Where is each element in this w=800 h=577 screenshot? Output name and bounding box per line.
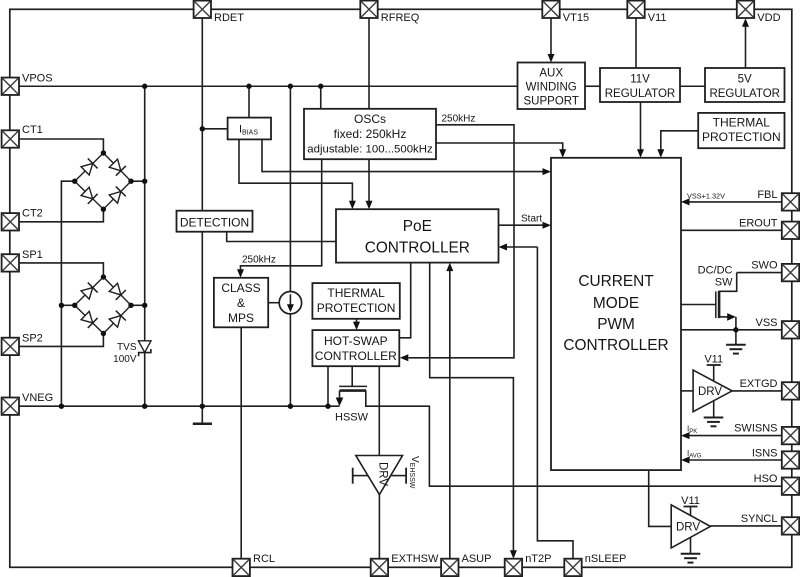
wire OSC right 250kHz to HOT-SWAP [409,125,515,358]
Q1 source arrow [339,391,341,399]
svg-text:REGULATOR: REGULATOR [709,88,780,100]
block DETECTION [177,211,253,232]
transistor Q2 DC/DC SW [681,273,737,345]
svg-text:PWM: PWM [597,316,635,333]
pin nT2P [505,559,522,576]
diode D1 [80,158,97,175]
diode D7 [80,311,97,328]
svg-text:SP1: SP1 [22,249,43,261]
svg-text:HOT-SWAP: HOT-SWAP [324,334,388,348]
pin SP1 [2,254,19,271]
pin EXTGD [782,382,799,399]
wire DRV A1 to EXTHSW pin [378,495,380,559]
wire IBIAS out1 to PWM left [262,139,543,171]
A3 V11 supply terminal [704,354,723,382]
wire RDET vertical to DETECTION [201,18,203,210]
junction IBIAS top [246,84,251,89]
svg-text:5V: 5V [738,74,752,86]
svg-text:RCL: RCL [253,553,275,565]
diode bridge B2 [75,277,131,334]
svg-text:PoE: PoE [403,218,432,235]
junction VNEG x61 [59,404,64,409]
svg-text:SWISNS: SWISNS [734,423,777,435]
transistor Q1 HSSW hot-swap switch [336,366,367,406]
svg-text:PROTECTION: PROTECTION [702,130,781,144]
svg-text:CLASS: CLASS [221,281,260,295]
Q1 gate bar [339,385,367,387]
bridge1 edge wires [75,153,131,209]
svg-text:VEHSSW: VEHSSW [408,456,420,489]
Q2 gate wire from PWM [681,304,716,306]
diode bridge B1 [75,153,131,209]
block IBIAS [228,118,271,140]
wire TVS to VNEG rail [144,353,146,407]
wire EROUT to PWM [681,229,782,231]
svg-text:DRV: DRV [698,386,722,398]
svg-text:EXTHSW: EXTHSW [391,553,439,565]
ground G4 [681,554,701,563]
wire DRV A2 to SYNCL pin [710,525,782,527]
wire V11 pin to 11V REGULATOR [635,18,637,68]
pin SWO [782,264,799,281]
svg-text:SYNCL: SYNCL [741,513,778,525]
wire OSC top stub from VPOS [320,86,322,109]
svg-text:VT15: VT15 [563,12,589,24]
pin SP2 [2,338,19,355]
pin RCL [233,559,250,576]
ground G2 [726,345,746,354]
svg-text:CURRENT: CURRENT [578,273,654,290]
Q1 channel bar [340,389,367,392]
pin CT2 [2,213,19,230]
svg-text:SUPPORT: SUPPORT [524,96,579,108]
wire IBIAS top stub from VPOS [248,86,250,117]
wire CT1 to bridge1 top [19,139,103,153]
Q2 gate bar [715,291,717,318]
svg-text:V11: V11 [681,495,700,507]
wire RFREQ vertical into OSC [368,18,370,109]
wire SWO to Q2 drain [737,272,783,274]
svg-text:CT2: CT2 [22,207,43,219]
svg-text:OSCs: OSCs [354,112,386,126]
wire SP1 to bridge2 top [19,263,103,277]
wire FBL to PWM [690,201,783,203]
wire bridge1 left node to VNEG rail [61,181,74,406]
svg-text:RDET: RDET [214,12,244,24]
block THERMAL PROTECTION mid [312,283,399,319]
current source CS1 [279,292,301,314]
wire bridge1 right node to VPOS rail [131,180,145,182]
diode D3 [80,186,97,203]
pin EXTHSW [371,559,388,576]
junction VNEG current source [288,404,293,409]
wire IBIAS out2 to PoE top [239,139,352,201]
wire PoE to HOT-SWAP [399,263,410,338]
svg-text:VSS+1.32V: VSS+1.32V [687,192,725,201]
svg-text:REGULATOR: REGULATOR [605,88,676,100]
svg-text:THERMAL: THERMAL [713,116,771,130]
wire VSS rail [681,329,782,331]
svg-text:IAVG: IAVG [687,449,702,460]
A2 ground stub [690,538,692,554]
svg-text:EXTGD: EXTGD [740,378,778,390]
wire DETECTION to VNEG rail [201,232,203,407]
A1 left terminal bar [353,468,368,484]
junction VSS Q2 source [733,327,738,332]
diode D8 [108,311,125,328]
junction VNEG x145 [142,404,147,409]
junction OSC top stub [318,84,323,89]
svg-text:DETECTION: DETECTION [180,215,249,229]
junction bridge2 left node [72,303,77,308]
wire 11V REGULATOR to PWM top [640,102,642,150]
svg-text:PROTECTION: PROTECTION [317,301,396,315]
junction bridge2 bottom node [101,331,106,336]
svg-text:IPK: IPK [687,425,697,436]
svg-text:DC/DC: DC/DC [698,265,733,277]
svg-text:nT2P: nT2P [525,553,551,565]
svg-text:VDD: VDD [757,12,780,24]
A1 right terminal bar VEHSSW [391,468,406,484]
pin ASUP [441,559,458,576]
junction bridge2 left rail [59,303,64,308]
svg-text:TVS: TVS [117,342,137,353]
Q1 gate stub from HOT-SWAP [351,366,353,386]
svg-text:V11: V11 [648,12,667,24]
pin EROUT [782,222,799,239]
diode D4 [108,187,125,204]
svg-text:FBL: FBL [757,189,777,201]
wire IBIAS left stub from RDET line [202,128,227,130]
A2 V11 supply terminal [681,495,700,516]
pin nSLEEP [564,559,581,576]
wire PoE to nT2P pin [430,263,514,551]
wire CLASS MPS to current source [268,302,279,304]
wire current source to VNEG rail [289,314,291,406]
pin RFREQ [360,1,377,18]
wire DRV A3 to EXTGD pin [732,390,782,392]
wire OSC bottom to PoE top [368,159,370,201]
Q2 channel bar [718,291,721,318]
block AUX WINDING SUPPORT [518,63,586,110]
diode D5 [80,283,97,300]
svg-text:adjustable: 100...500kHz: adjustable: 100...500kHz [307,144,433,156]
svg-text:RFREQ: RFREQ [381,12,420,24]
driver A3 DRV for EXTGD [693,370,732,412]
diode D2 [108,158,125,175]
pin RDET [194,1,211,18]
svg-text:CT1: CT1 [22,124,43,136]
wire PWM to DRV A3 input [681,390,693,392]
wire SWISNS to PWM [690,435,783,437]
TVS zener diode 100V [138,341,151,356]
svg-text:nSLEEP: nSLEEP [585,553,627,565]
node vertical from VPOS to current source [289,86,291,291]
svg-text:AUX: AUX [539,68,563,80]
block 5V REGULATOR [705,68,785,102]
junction VNEG ground [200,404,205,409]
wire 5V REGULATOR to VDD pin [745,26,747,68]
pin ISNS [782,451,799,468]
pin VDD [737,1,754,18]
Q2 source arrow [719,316,728,318]
wire OSC right to PWM top [436,143,563,150]
diode D6 [108,282,125,299]
svg-text:fixed: 250kHz: fixed: 250kHz [334,127,407,141]
block 11V REGULATOR [600,68,680,102]
svg-text:100V: 100V [113,354,137,365]
wire THERMAL mid to HOT-SWAP [356,319,358,323]
svg-text:CONTROLLER: CONTROLLER [315,349,397,363]
wire DETECTION to PoE CONTROLLER [227,232,336,242]
wire VPOS vertical rail to TVS [144,86,146,340]
pin HSO [782,478,799,495]
svg-text:250kHz: 250kHz [242,255,276,266]
wire ISNS to PWM [690,459,783,461]
wire PWM to SYNCL driver [649,470,672,526]
wire ASUP pin to PoE bottom [449,271,451,559]
svg-text:VPOS: VPOS [22,72,53,84]
block CURRENT MODE PWM CONTROLLER U1 [551,158,681,470]
Q2 source to ground [735,317,737,344]
svg-text:HSO: HSO [754,473,778,485]
pin SWISNS [782,427,799,444]
junction bridge2 top node [101,274,106,279]
junction bridge1 bottom node [101,207,106,212]
junction current source line top [288,84,293,89]
wire THERMAL PROTECTION to PWM top [661,131,698,150]
pin V11 [627,1,644,18]
wire Start PoE to PWM [499,224,543,226]
junction IBIAS left on RDET line [200,126,205,131]
A3 ground stub [713,401,715,417]
pin FBL [782,193,799,210]
wire SP2 to bridge2 bottom [19,334,103,347]
svg-text:VSS: VSS [755,317,777,329]
svg-text:11V: 11V [630,74,650,86]
junction VPOS rail x145 [142,84,147,89]
junction bridge1 rail [142,179,147,184]
svg-text:SP2: SP2 [22,332,43,344]
wire CLASS MPS to RCL pin [240,327,242,559]
junction bridge1 right node [128,179,133,184]
svg-text:SW: SW [715,277,733,289]
svg-text:MPS: MPS [228,311,254,325]
svg-text:ISNS: ISNS [752,447,778,459]
junction bridge2 right node [128,303,133,308]
pin VT15 [542,1,559,18]
Q2 drain to SWO [719,273,737,292]
junction VNEG hot-swap stub [325,404,330,409]
wire bridge2 left node stub [61,304,74,306]
svg-text:DRV: DRV [676,522,700,534]
wire VNEG rail horizontal [19,405,340,407]
svg-text:CONTROLLER: CONTROLLER [365,240,470,257]
svg-text:HSSW: HSSW [335,412,369,424]
svg-text:THERMAL: THERMAL [327,286,385,300]
wire AUX to 11V REGULATOR [585,85,600,87]
junction bridge1 top node [101,150,106,155]
svg-text:250kHz: 250kHz [442,114,476,125]
junction bridge2 rail [142,303,147,308]
bridge2 edge wires [75,277,131,334]
block HOT-SWAP CONTROLLER [312,330,399,366]
wire 11V to 5V REGULATOR [680,85,705,87]
wire VPOS rail horizontal [19,85,518,87]
block PoE CONTROLLER U2 [336,209,499,262]
svg-text:Start: Start [521,214,542,225]
pin CT1 [2,130,19,147]
svg-text:SWO: SWO [751,260,778,272]
ground G1 near DETECTION line [193,406,212,424]
svg-text:&: & [237,296,245,310]
wire HOT-SWAP left stub to VNEG rail [327,366,329,406]
svg-text:MODE: MODE [593,295,639,312]
block THERMAL PROTECTION top [698,113,784,148]
pin SYNCL [782,517,799,534]
ground G3 [704,418,724,427]
svg-text:CONTROLLER: CONTROLLER [563,337,668,354]
pin VPOS [2,78,19,95]
wire CT2 to bridge1 bottom [19,209,103,222]
svg-text:ASUP: ASUP [462,553,492,565]
svg-text:DRV: DRV [377,462,389,486]
wire bridge2 right node to VPOS rail [131,304,145,306]
junction bridge1 left node [72,179,77,184]
svg-text:V11: V11 [704,354,723,366]
wire nSLEEP to PoE right [537,247,573,559]
pin VNEG [2,398,19,415]
svg-text:WINDING: WINDING [526,82,577,94]
block OSCs [304,109,436,159]
wire VT15 to AUX WINDING SUPPORT [550,18,552,54]
driver A2 DRV for SYNCL [671,505,710,548]
wire HOT-SWAP to DRV A1 gate line [378,366,380,455]
wire OSC 250kHz to CLASS MPS [241,159,322,270]
driver A1 DRV for EXTHSW [356,456,403,495]
block CLASS &amp; MPS [214,278,268,328]
svg-text:VNEG: VNEG [22,392,53,404]
pin VSS [782,321,799,338]
wire Q1 drain to HSO pin [366,391,782,487]
svg-text:EROUT: EROUT [739,218,778,230]
